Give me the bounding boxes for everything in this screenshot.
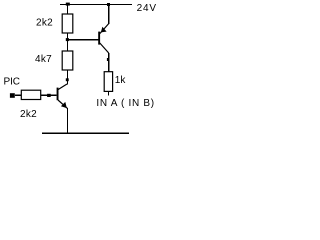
svg-text:2k2: 2k2 xyxy=(20,109,37,120)
svg-text:PIC: PIC xyxy=(4,76,20,87)
svg-text:4k7: 4k7 xyxy=(35,54,52,65)
svg-text:2k2: 2k2 xyxy=(36,17,53,28)
svg-text:IN A ( IN B): IN A ( IN B) xyxy=(96,98,154,109)
svg-text:1k: 1k xyxy=(115,75,127,86)
svg-text:24V: 24V xyxy=(137,3,157,14)
